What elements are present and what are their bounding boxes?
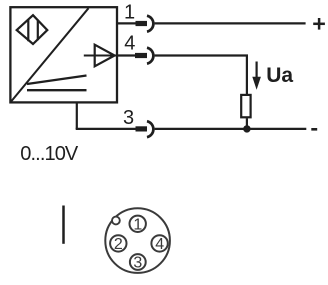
svg-text:3: 3 — [133, 254, 142, 271]
svg-text:1: 1 — [124, 1, 135, 23]
connector socket pin 4 — [147, 48, 153, 64]
connector socket pin 3 — [147, 121, 153, 137]
svg-text:0...10V: 0...10V — [20, 143, 79, 165]
junction dot — [243, 125, 250, 132]
pin 1 circle — [130, 216, 146, 234]
pin 4 circle — [151, 235, 167, 253]
wire resistor to minus rail — [246, 118, 248, 129]
sensor box — [10, 7, 117, 102]
wire pin4 to load corner — [155, 54, 248, 56]
wire pin1 stub — [117, 22, 136, 24]
plus terminal — [313, 18, 325, 30]
amplifier input wire — [84, 55, 117, 57]
svg-text:Ua: Ua — [266, 64, 293, 87]
svg-text:1: 1 — [133, 216, 142, 233]
wire down to resistor — [246, 56, 248, 95]
adjustment base line — [27, 89, 87, 91]
pin 2 circle — [110, 235, 126, 253]
wire pin4 stub — [117, 54, 136, 56]
diamond inner left line — [27, 19, 29, 41]
connector plug pin 1 — [136, 21, 148, 26]
connector face outer circle — [105, 208, 170, 273]
amplifier triangle U1 — [95, 45, 115, 67]
wire pin1 to plus — [155, 22, 306, 24]
svg-text:4: 4 — [124, 32, 135, 54]
wire pin3 to minus — [155, 128, 307, 130]
connector socket pin 1 — [147, 16, 153, 32]
cable stroke — [62, 206, 65, 244]
keying notch — [112, 217, 120, 225]
svg-text:3: 3 — [123, 107, 134, 129]
svg-text:2: 2 — [114, 236, 123, 253]
proximity sensor diamond — [17, 15, 48, 44]
resistor RL — [241, 95, 250, 117]
svg-text:4: 4 — [155, 236, 164, 253]
adjustment slanted line — [27, 76, 87, 85]
pin 3 circle — [130, 254, 146, 271]
minus terminal — [311, 128, 317, 131]
arrow Ua — [252, 62, 261, 90]
diamond inner right line — [37, 20, 39, 40]
diagonal divider — [11, 8, 89, 102]
connector plug pin 3 — [136, 126, 148, 131]
wire pin3 horizontal — [76, 128, 136, 130]
wire pin3 drop — [76, 102, 78, 129]
connector plug pin 4 — [135, 53, 147, 58]
